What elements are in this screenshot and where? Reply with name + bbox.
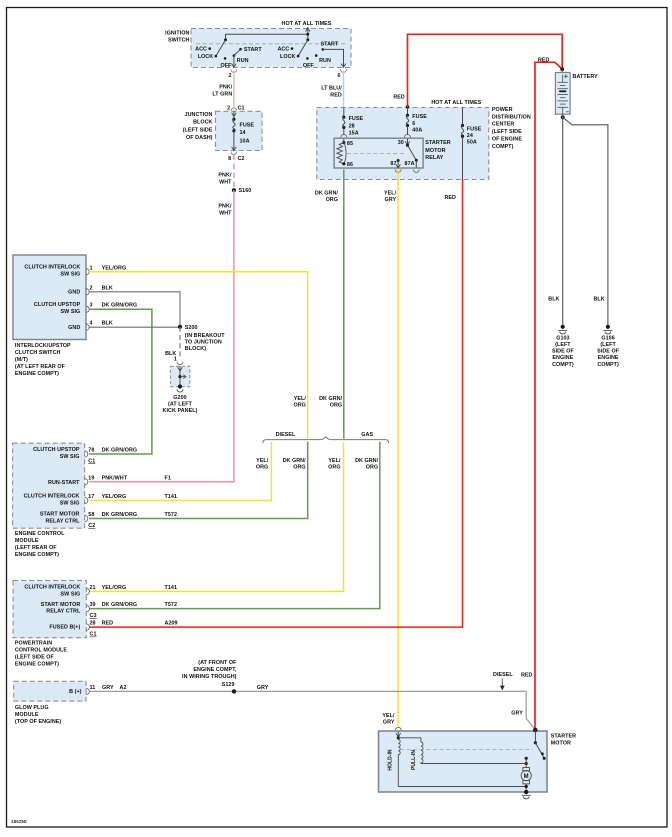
svg-text:BLK: BLK [593, 297, 604, 303]
wire DK GRN/ORG relay 86 down to brace [343, 170, 345, 439]
node battery positive [560, 67, 564, 71]
svg-text:RELAY CTRL: RELAY CTRL [45, 519, 80, 525]
svg-text:C1: C1 [88, 458, 95, 464]
svg-text:COMPT): COMPT) [597, 362, 619, 368]
svg-text:PNK/: PNK/ [218, 172, 232, 178]
svg-text:COMPT): COMPT) [552, 362, 574, 368]
fuse 28 15A [343, 108, 345, 118]
svg-text:RED: RED [444, 195, 456, 201]
wire LT BLU/RED [343, 71, 345, 108]
wire YEL/ORG diesel to ECM pin 17 [89, 442, 271, 501]
svg-text:BATTERY: BATTERY [573, 74, 599, 80]
svg-text:OFF: OFF [221, 63, 233, 69]
svg-text:(LEFT SIDE: (LEFT SIDE [492, 129, 522, 135]
svg-text:17: 17 [88, 494, 94, 500]
svg-text:START: START [244, 47, 262, 53]
glow plug pin 11 connector [86, 688, 89, 694]
PCM pin 21 connector [86, 588, 89, 594]
svg-text:14: 14 [240, 130, 246, 136]
svg-text:(TOP OF ENGINE): (TOP OF ENGINE) [15, 719, 62, 725]
svg-text:CLUTCH INTERLOCK: CLUTCH INTERLOCK [24, 265, 80, 271]
svg-text:GRY: GRY [383, 719, 395, 725]
wire ignition START output pin 6 [323, 49, 344, 66]
svg-text:TO JUNCTION: TO JUNCTION [185, 339, 222, 345]
svg-text:86: 86 [347, 162, 353, 168]
svg-text:M: M [524, 774, 529, 780]
svg-text:ORG: ORG [330, 402, 342, 408]
svg-text:GND: GND [68, 290, 80, 296]
starter motor box [395, 727, 401, 730]
svg-text:A2: A2 [120, 685, 127, 691]
svg-text:RUN: RUN [237, 58, 249, 64]
node battery negative [561, 115, 565, 119]
svg-text:DK GRN/ORG: DK GRN/ORG [102, 602, 138, 608]
ECM pin 17 connector [85, 497, 88, 503]
svg-text:28: 28 [90, 621, 96, 627]
svg-text:RED: RED [330, 93, 342, 99]
svg-text:RED: RED [521, 673, 533, 679]
svg-text:30: 30 [398, 140, 404, 146]
wire GRY glow plug to starter [89, 691, 535, 729]
svg-text:COMPT): COMPT) [492, 144, 514, 150]
svg-text:YEL/ORG: YEL/ORG [102, 265, 127, 271]
pin 3 connector [86, 306, 89, 312]
svg-text:MODULE: MODULE [15, 712, 39, 718]
svg-text:ORG: ORG [293, 465, 305, 471]
power distribution center box [317, 108, 489, 180]
svg-text:CLUTCH UPSTOP: CLUTCH UPSTOP [34, 302, 81, 308]
svg-text:(LEFT: (LEFT [555, 342, 571, 348]
ECM pin 19 connector [85, 479, 88, 485]
svg-text:DK GRN/: DK GRN/ [283, 458, 307, 464]
svg-text:STARTER: STARTER [425, 140, 450, 146]
wire DK GRN/ORG diesel to ECM pin 58 [89, 442, 308, 519]
svg-text:KICK PANEL): KICK PANEL) [163, 408, 198, 414]
svg-text:CENTER: CENTER [492, 122, 515, 128]
wire PNK/LT GRN [233, 71, 235, 109]
motor M [523, 768, 530, 771]
svg-text:87A: 87A [405, 161, 415, 167]
svg-text:PNK/WHT: PNK/WHT [102, 475, 128, 481]
starter internal dashed link [400, 749, 533, 751]
svg-text:IN WIRING TROUGH): IN WIRING TROUGH) [182, 674, 237, 680]
pin 1 connector [86, 269, 89, 275]
svg-text:(M/T): (M/T) [15, 357, 28, 363]
svg-text:POWERTRAIN: POWERTRAIN [15, 641, 52, 647]
svg-text:S200: S200 [185, 325, 198, 331]
svg-text:BLK: BLK [102, 285, 113, 291]
svg-text:A209: A209 [165, 621, 178, 627]
brace diesel/gas split [263, 437, 389, 443]
svg-text:C2: C2 [238, 156, 245, 162]
connector C2 pin 8 [231, 152, 237, 155]
svg-text:15A: 15A [349, 131, 359, 137]
hold-in coil [398, 738, 400, 787]
svg-text:ENGINE: ENGINE [598, 355, 619, 361]
svg-text:OF DASH): OF DASH) [186, 135, 213, 141]
svg-text:28: 28 [349, 123, 355, 129]
PCM pin 39 connector [86, 605, 89, 611]
pull-in coil [398, 738, 421, 742]
starter solenoid feed [397, 732, 399, 738]
svg-text:(AT LEFT: (AT LEFT [168, 401, 193, 407]
svg-text:OF ENGINE: OF ENGINE [492, 137, 522, 143]
svg-text:IGNITION: IGNITION [165, 31, 189, 37]
svg-text:2: 2 [227, 105, 230, 111]
ground G106 [606, 325, 610, 329]
svg-text:START: START [321, 42, 339, 48]
svg-text:RED: RED [393, 94, 405, 100]
wire PNK/WHT dashed segment [233, 155, 235, 189]
svg-text:2: 2 [228, 73, 231, 79]
svg-text:G200: G200 [173, 395, 186, 401]
svg-text:10A: 10A [240, 138, 250, 144]
wire interconnect between switch halves [226, 34, 308, 40]
svg-text:58: 58 [88, 512, 94, 518]
svg-text:WHT: WHT [219, 210, 232, 216]
powertrain control module box [13, 580, 86, 637]
svg-text:SWITCH: SWITCH [168, 38, 190, 44]
svg-text:CLUTCH SWITCH: CLUTCH SWITCH [15, 350, 61, 356]
svg-text:PNK/: PNK/ [218, 203, 232, 209]
svg-text:ORG: ORG [293, 402, 305, 408]
svg-text:MOTOR: MOTOR [551, 740, 571, 746]
svg-text:YEL/: YEL/ [328, 458, 341, 464]
engine control module box [13, 443, 85, 528]
svg-text:INTERLOCK/UPSTOP: INTERLOCK/UPSTOP [15, 343, 71, 349]
svg-text:DK GRN/: DK GRN/ [315, 191, 339, 197]
svg-text:HOLD-IN: HOLD-IN [387, 749, 393, 771]
svg-text:(LEFT SIDE OF: (LEFT SIDE OF [15, 655, 55, 661]
svg-text:6: 6 [337, 73, 340, 79]
svg-text:19: 19 [88, 475, 94, 481]
svg-text:40A: 40A [412, 127, 422, 133]
svg-text:JUNCTION: JUNCTION [185, 112, 213, 118]
svg-text:ENGINE: ENGINE [552, 355, 573, 361]
svg-text:BLOCK): BLOCK) [185, 346, 206, 352]
svg-text:RED: RED [102, 621, 114, 627]
svg-text:RELAY CTRL: RELAY CTRL [46, 609, 81, 615]
svg-text:YEL/: YEL/ [384, 191, 397, 197]
svg-text:1: 1 [90, 265, 93, 271]
svg-text:ENGINE COMPT,: ENGINE COMPT, [193, 667, 237, 673]
svg-text:DK GRN/ORG: DK GRN/ORG [102, 303, 138, 309]
svg-text:(LEFT SIDE: (LEFT SIDE [183, 127, 213, 133]
svg-text:F1: F1 [165, 475, 171, 481]
svg-text:START MOTOR: START MOTOR [41, 602, 81, 608]
svg-text:BLOCK: BLOCK [193, 120, 212, 126]
svg-text:3: 3 [90, 303, 93, 309]
svg-text:PNK/: PNK/ [219, 85, 233, 91]
wire YEL/ORG clutch pin 1 to brace [89, 272, 307, 439]
svg-text:4: 4 [90, 321, 93, 327]
splice S200 [178, 325, 182, 329]
svg-text:DISTRIBUTION: DISTRIBUTION [492, 114, 531, 120]
svg-text:11: 11 [90, 685, 96, 691]
svg-text:START MOTOR: START MOTOR [40, 512, 80, 518]
wire YEL/ORG gas to PCM pin 21 [89, 442, 344, 592]
battery [561, 69, 563, 72]
svg-text:GAS: GAS [361, 432, 373, 438]
svg-text:GRY: GRY [257, 685, 269, 691]
connector C1 pin 2 [231, 108, 237, 111]
svg-text:DK GRN/: DK GRN/ [355, 458, 379, 464]
svg-text:6: 6 [412, 121, 415, 127]
svg-text:50A: 50A [467, 140, 477, 146]
svg-text:C1: C1 [90, 632, 97, 638]
wire hot feed into ignition switch [306, 28, 310, 32]
svg-text:ORG: ORG [326, 197, 338, 203]
svg-text:39: 39 [90, 602, 96, 608]
svg-text:LOCK: LOCK [198, 54, 214, 60]
svg-text:SW SIG: SW SIG [61, 272, 81, 278]
wire YEL/GRY relay 87 down to starter [397, 170, 399, 728]
starter solenoid switch [533, 728, 538, 733]
wire PNK/WHT to ECM pin 19 [89, 190, 234, 482]
svg-text:CLUTCH INTERLOCK: CLUTCH INTERLOCK [24, 585, 80, 591]
svg-text:DK GRN/ORG: DK GRN/ORG [102, 448, 138, 454]
svg-text:SIDE OF: SIDE OF [552, 349, 575, 355]
wire DK GRN/ORG gas to PCM pin 39 [89, 442, 380, 609]
svg-text:(IN BREAKOUT: (IN BREAKOUT [185, 333, 225, 339]
dashed mechanical link [196, 43, 346, 45]
svg-text:PULL-IN: PULL-IN [411, 750, 417, 770]
svg-text:FUSED B(+): FUSED B(+) [49, 625, 80, 631]
svg-text:GLOW PLUG: GLOW PLUG [15, 705, 49, 711]
junction block box [216, 111, 263, 150]
svg-text:MOTOR: MOTOR [425, 148, 445, 154]
ECM pin 78 connector [85, 451, 88, 457]
svg-text:SW SIG: SW SIG [61, 309, 81, 315]
svg-text:(LEFT REAR OF: (LEFT REAR OF [15, 545, 57, 551]
wire BLK clutch pin 4 to S200 [89, 326, 180, 328]
svg-text:SW SIG: SW SIG [60, 454, 80, 460]
svg-text:ORG: ORG [256, 465, 268, 471]
starter motor relay box [334, 138, 423, 168]
svg-text:G106: G106 [601, 335, 614, 341]
svg-text:85: 85 [347, 141, 353, 147]
svg-text:MODULE: MODULE [15, 538, 39, 544]
svg-text:B (+): B (+) [69, 689, 82, 695]
svg-text:GND: GND [68, 325, 80, 331]
svg-text:SIDE OF: SIDE OF [597, 349, 620, 355]
svg-text:21: 21 [90, 585, 96, 591]
svg-text:YEL/ORG: YEL/ORG [102, 494, 127, 500]
svg-text:FUSE: FUSE [349, 116, 364, 122]
svg-text:S160: S160 [239, 188, 252, 194]
svg-text:ENGINE COMPT): ENGINE COMPT) [15, 371, 59, 377]
svg-text:SW SIG: SW SIG [61, 591, 81, 597]
svg-text:DIESEL: DIESEL [493, 672, 513, 678]
svg-text:YEL/: YEL/ [294, 396, 307, 402]
svg-text:G103: G103 [556, 335, 569, 341]
svg-text:YEL/: YEL/ [256, 458, 269, 464]
svg-text:ACC: ACC [277, 47, 289, 53]
svg-text:DK GRN/ORG: DK GRN/ORG [102, 512, 138, 518]
svg-text:87: 87 [390, 161, 396, 167]
svg-text:(LEFT: (LEFT [600, 342, 616, 348]
ignition switch box [191, 29, 351, 68]
svg-text:LT GRN: LT GRN [212, 92, 232, 98]
svg-text:DIESEL: DIESEL [276, 432, 296, 438]
svg-text:T572: T572 [165, 512, 178, 518]
svg-text:FUSE: FUSE [240, 123, 255, 129]
svg-text:YEL/ORG: YEL/ORG [102, 585, 127, 591]
svg-text:ACC: ACC [195, 47, 207, 53]
svg-text:WHT: WHT [219, 179, 232, 185]
svg-text:1: 1 [174, 357, 177, 363]
svg-text:ORG: ORG [366, 465, 378, 471]
svg-text:SW SIG: SW SIG [60, 501, 80, 507]
svg-text:HOT AT ALL TIMES: HOT AT ALL TIMES [431, 100, 481, 106]
svg-text:78: 78 [88, 448, 94, 454]
svg-text:ENGINE COMPT): ENGINE COMPT) [15, 662, 59, 668]
svg-text:ORG: ORG [328, 465, 340, 471]
ECM pin 58 connector [85, 515, 88, 521]
svg-text:2: 2 [90, 285, 93, 291]
svg-text:RUN: RUN [319, 58, 331, 64]
wire fuse to C2 [233, 131, 235, 150]
svg-text:C3: C3 [90, 613, 97, 619]
svg-text:BLK: BLK [102, 321, 113, 327]
svg-text:FUSE: FUSE [467, 126, 482, 132]
wire DK GRN/ORG clutch pin 3 to ECM pin 78 [89, 309, 152, 454]
pin 4 connector [86, 324, 89, 330]
svg-text:S129: S129 [222, 682, 235, 688]
svg-text:(AT LEFT REAR OF: (AT LEFT REAR OF [15, 364, 66, 370]
svg-text:POWER: POWER [492, 107, 513, 113]
svg-text:RELAY: RELAY [425, 155, 443, 161]
svg-text:HOT AT ALL TIMES: HOT AT ALL TIMES [282, 21, 332, 27]
relay coil [343, 139, 345, 143]
svg-text:CLUTCH INTERLOCK: CLUTCH INTERLOCK [24, 494, 80, 500]
svg-text:T141: T141 [165, 494, 178, 500]
ground G103 [561, 325, 565, 329]
wire RED battery to starter motor [535, 62, 562, 729]
splice S160 [232, 188, 236, 192]
svg-text:T572: T572 [165, 602, 178, 608]
wire ignition RUN output pin 2 [233, 56, 235, 67]
fuse 24 50A [462, 108, 464, 126]
svg-text:CLUTCH UPSTOP: CLUTCH UPSTOP [33, 447, 80, 453]
svg-text:YEL/: YEL/ [382, 713, 395, 719]
PCM pin 28 connector [86, 624, 89, 630]
svg-text:STARTER: STARTER [551, 733, 576, 739]
wire RED fuse 24 to PCM pin 28 [89, 180, 463, 628]
fuse 14 10A [233, 111, 235, 119]
svg-text:ENGINE CONTROL: ENGINE CONTROL [15, 531, 65, 537]
svg-text:LT BLU/: LT BLU/ [321, 86, 342, 92]
glow plug module box [14, 681, 86, 701]
starter ground [524, 790, 528, 794]
svg-text:186258: 186258 [11, 819, 27, 824]
pin 2 connector [86, 289, 89, 295]
ignition switch half 2 [306, 38, 309, 41]
starter contact studs [525, 757, 528, 760]
svg-text:BLK: BLK [548, 297, 559, 303]
svg-text:GRY: GRY [511, 711, 523, 717]
starter bottom rail [398, 786, 526, 788]
wire BLK battery to G103 [562, 114, 564, 327]
wire BLK clutch pin 2 to S200 [89, 292, 180, 327]
svg-text:FUSE: FUSE [412, 114, 427, 120]
svg-text:GRY: GRY [102, 685, 114, 691]
svg-text:CONTROL MODULE: CONTROL MODULE [15, 648, 67, 654]
wire BLK S200 to G200 (dashed) [179, 327, 181, 360]
interlock/upstop clutch switch box [13, 255, 86, 340]
svg-text:T141: T141 [165, 585, 178, 591]
svg-text:C2: C2 [88, 523, 95, 529]
svg-text:ENGINE COMPT): ENGINE COMPT) [15, 552, 59, 558]
svg-text:DK GRN/: DK GRN/ [319, 396, 343, 402]
wire fuse 28 to relay pin 85 [343, 128, 345, 136]
ground distribution G200 box [170, 366, 189, 386]
svg-text:8: 8 [228, 156, 231, 162]
svg-text:RUN-START: RUN-START [48, 480, 80, 486]
svg-text:LOCK: LOCK [280, 54, 296, 60]
svg-text:24: 24 [467, 133, 473, 139]
svg-text:OFF: OFF [303, 63, 315, 69]
svg-text:GRY: GRY [385, 197, 397, 203]
svg-text:(AT FRONT OF: (AT FRONT OF [198, 660, 237, 666]
svg-text:C1: C1 [238, 105, 245, 111]
ignition switch half 1 [224, 38, 227, 41]
wire BLK battery to G106 [563, 117, 608, 326]
relay dashed link [347, 152, 406, 154]
fuse 6 40A [406, 105, 410, 109]
